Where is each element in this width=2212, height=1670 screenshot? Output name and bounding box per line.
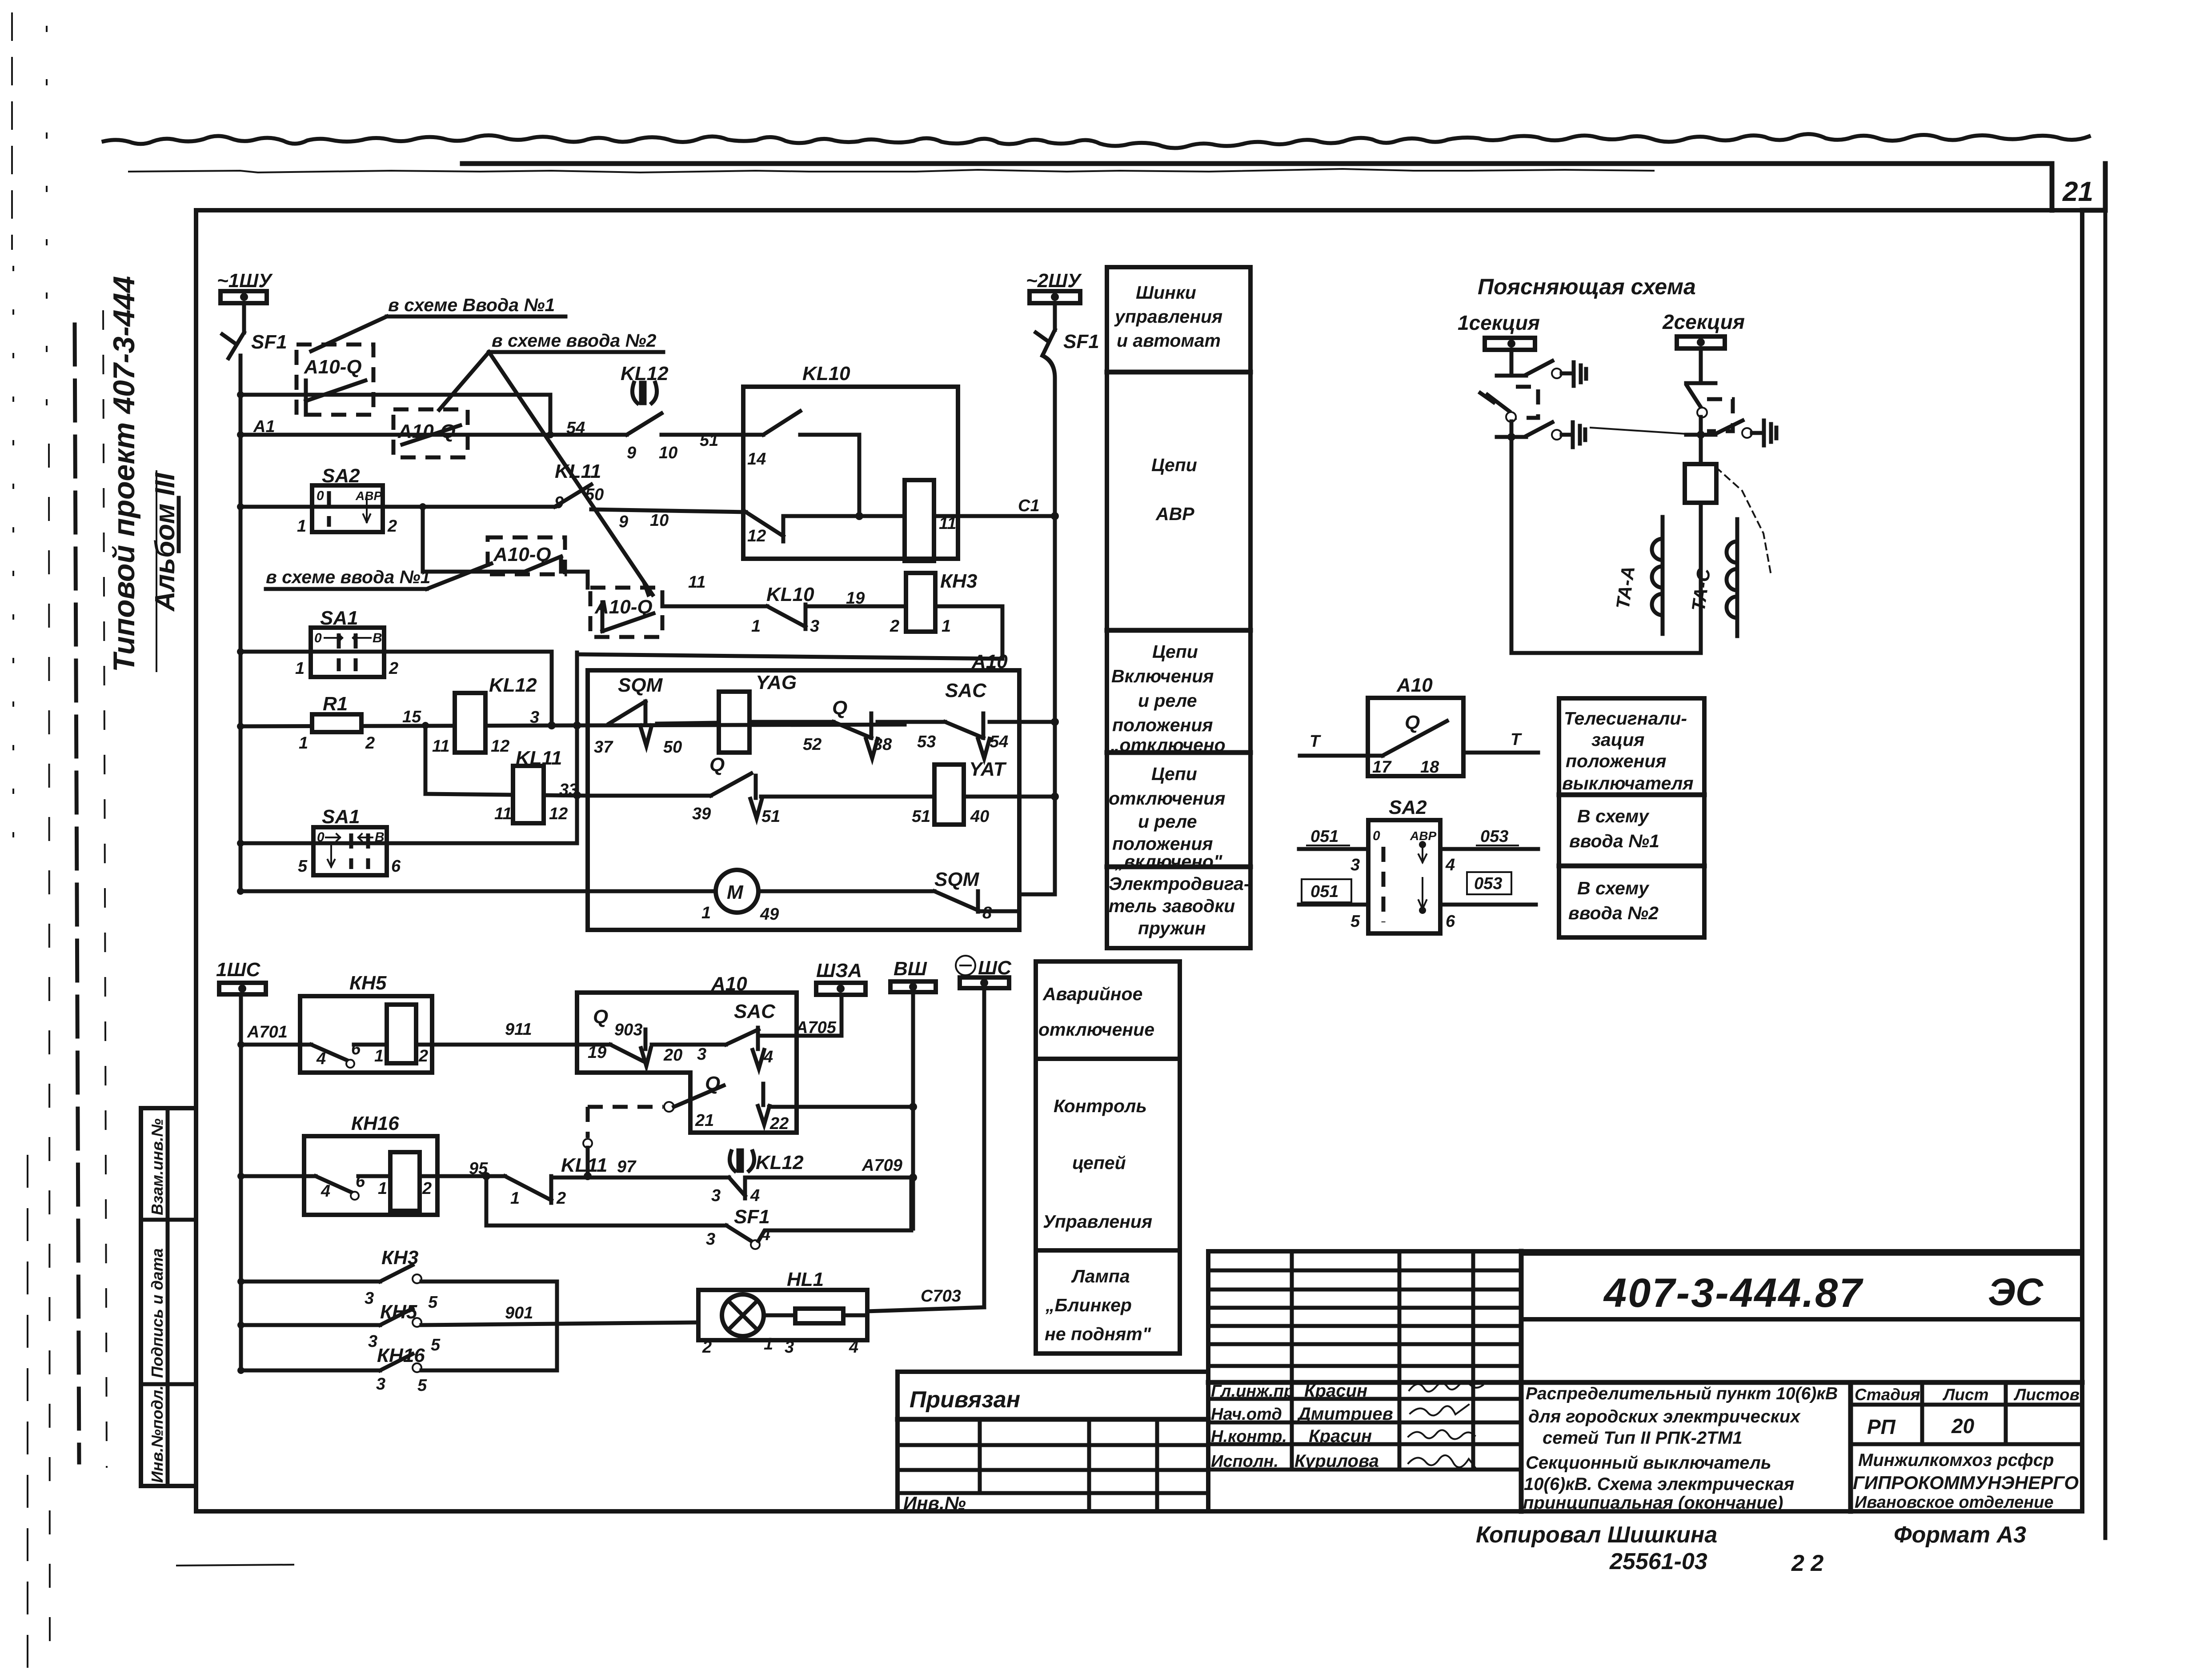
- svg-text:1: 1: [299, 734, 308, 753]
- svg-text:52: 52: [803, 735, 821, 754]
- svg-text:SF1: SF1: [1063, 331, 1099, 352]
- svg-text:A701: A701: [247, 1023, 288, 1041]
- wire: left vertical bus: [239, 356, 243, 891]
- svg-text:ввода №1: ввода №1: [1569, 831, 1659, 851]
- svg-text:YAT: YAT: [969, 758, 1007, 780]
- scan stray line: [177, 1565, 293, 1566]
- svg-text:51: 51: [700, 431, 718, 450]
- svg-text:Электродвига-: Электродвига-: [1109, 873, 1250, 894]
- svg-text:4: 4: [321, 1182, 330, 1201]
- svg-text:Q: Q: [1405, 712, 1420, 733]
- wire long link y1478: [577, 654, 1002, 659]
- svg-text:20: 20: [663, 1046, 682, 1065]
- svg-text:выключателя: выключателя: [1562, 773, 1694, 793]
- svg-text:КН16: КН16: [351, 1113, 399, 1134]
- wire box3 row: [423, 557, 588, 588]
- wire lower-left bus: [239, 994, 243, 1370]
- wire w2 bus A1: [240, 433, 627, 437]
- svg-text:Исполн.: Исполн.: [1211, 1452, 1278, 1471]
- svg-text:Контроль: Контроль: [1054, 1096, 1147, 1116]
- resistor R1: [299, 693, 375, 753]
- breaker SF1 (right): [1036, 330, 1099, 356]
- contact A10-Q (box 3): [488, 537, 565, 574]
- svg-text:3: 3: [785, 1338, 794, 1357]
- svg-text:051: 051: [1310, 882, 1338, 901]
- svg-text:38: 38: [873, 735, 892, 754]
- disconnector knife (sec2 right): [1715, 421, 1776, 445]
- svg-text:5: 5: [431, 1336, 441, 1354]
- wire w3 continues: [591, 509, 746, 512]
- svg-text:положения: положения: [1112, 715, 1213, 735]
- svg-text:10(6)кВ. Схема электрическая: 10(6)кВ. Схема электрическая: [1524, 1474, 1794, 1494]
- svg-text:Типовой проект 407-3-444: Типовой проект 407-3-444: [107, 276, 141, 672]
- svg-text:принципиальная (окончание): принципиальная (окончание): [1523, 1493, 1783, 1513]
- LOWERSECTION: [216, 956, 1012, 1395]
- net 911: [416, 1043, 610, 1047]
- svg-text:3: 3: [1350, 856, 1360, 874]
- svg-text:в схеме Ввода №1: в схеме Ввода №1: [388, 295, 555, 315]
- svg-text:12: 12: [747, 527, 766, 545]
- contact Q 19-20: [588, 1006, 682, 1066]
- svg-text:SQM: SQM: [934, 869, 980, 890]
- svg-text:положения: положения: [1566, 751, 1667, 771]
- svg-text:3: 3: [365, 1289, 374, 1308]
- top horizontal rule: [462, 161, 2052, 166]
- svg-text:2: 2: [418, 1047, 428, 1065]
- wire A701 row: [241, 1043, 311, 1047]
- svg-text:отключение: отключение: [1038, 1019, 1154, 1040]
- svg-text:сетей Тип II РПК-2ТМ1: сетей Тип II РПК-2ТМ1: [1543, 1428, 1743, 1448]
- wire right drop: [555, 1282, 559, 1370]
- svg-text:Инв.№подл.: Инв.№подл.: [148, 1386, 166, 1483]
- wire: drop SA1 row to R1 row: [550, 652, 554, 726]
- svg-text:9: 9: [619, 513, 628, 531]
- svg-text:22: 22: [769, 1114, 789, 1133]
- svg-text:0: 0: [317, 830, 325, 845]
- svg-text:39: 39: [692, 805, 711, 823]
- svg-text:В схему: В схему: [1577, 806, 1650, 826]
- svg-text:5: 5: [417, 1376, 427, 1395]
- wire KH16 row: [241, 1174, 316, 1178]
- contact KL10.14: [747, 411, 859, 516]
- svg-text:и автомат: и автомат: [1117, 330, 1221, 351]
- svg-text:Аварийное: Аварийное: [1042, 984, 1142, 1004]
- svg-text:1секция: 1секция: [1458, 311, 1540, 334]
- svg-text:54: 54: [990, 733, 1008, 751]
- svg-text:КН5: КН5: [380, 1301, 417, 1323]
- telemetry legend box: [1559, 698, 1704, 937]
- TITLEBLOCK: [898, 1251, 2082, 1576]
- svg-text:3: 3: [711, 1186, 721, 1205]
- svg-text:2: 2: [890, 617, 899, 636]
- svg-text:не поднят": не поднят": [1045, 1324, 1151, 1344]
- bus 1 секция: [1458, 311, 1540, 350]
- coil KL12: [432, 674, 537, 756]
- wire w3 (SA2 row): [240, 505, 555, 509]
- svg-text:C1: C1: [1018, 497, 1040, 515]
- net 95: [420, 1174, 505, 1178]
- svg-text:в схеме ввода №1: в схеме ввода №1: [266, 567, 430, 587]
- svg-text:1: 1: [297, 517, 306, 536]
- svg-text:KL12: KL12: [756, 1152, 804, 1173]
- lamp HL1: [698, 1269, 867, 1357]
- svg-text:Взам.инв.№: Взам.инв.№: [148, 1118, 166, 1215]
- disconnector knife (sec2 upper): [1687, 386, 1707, 417]
- svg-text:97: 97: [617, 1157, 637, 1176]
- bus ВШ: [890, 958, 936, 992]
- net 051 boxed: [1299, 879, 1368, 931]
- svg-text:0: 0: [314, 631, 322, 645]
- svg-text:51: 51: [912, 807, 930, 826]
- svg-text:53: 53: [917, 733, 936, 751]
- svg-text:Цепи: Цепи: [1152, 641, 1198, 662]
- svg-text:ВШ: ВШ: [894, 958, 927, 980]
- breaker SF1 (left): [222, 331, 287, 358]
- contact Q 39-51: [588, 754, 780, 826]
- wire vertical riser x1298: [575, 653, 579, 843]
- wire w6 (KL11 row): [425, 794, 588, 796]
- svg-text:3: 3: [706, 1230, 715, 1249]
- footer notes: [1476, 1522, 2026, 1576]
- dashed interlock box sec1: [1516, 387, 1538, 418]
- sheet no box "21": [2050, 164, 2055, 210]
- svg-text:В схему: В схему: [1577, 878, 1650, 898]
- contact KH3 3-5: [237, 1247, 557, 1312]
- svg-text:Шинки: Шинки: [1136, 282, 1196, 303]
- svg-text:SA2: SA2: [1389, 797, 1427, 818]
- svg-text:A10: A10: [1396, 674, 1433, 696]
- svg-text:SQM: SQM: [618, 674, 663, 696]
- svg-text:2: 2: [387, 517, 397, 536]
- svg-text:Лист: Лист: [1942, 1386, 1989, 1404]
- wire SAC to C1 bus: [990, 720, 1055, 724]
- dashed interlock box sec2: [1707, 399, 1733, 431]
- relay KH16 (coil + contact box): [304, 1113, 437, 1215]
- svg-text:„Блинкер: „Блинкер: [1045, 1295, 1132, 1315]
- disconnector knife (sec1 lower): [1526, 422, 1585, 447]
- svg-text:КН5: КН5: [349, 972, 387, 994]
- svg-text:051: 051: [1310, 827, 1338, 846]
- svg-text:T: T: [1310, 732, 1321, 751]
- svg-text:Формат А3: Формат А3: [1894, 1522, 2026, 1548]
- switch SA2 (repeat): [1368, 797, 1440, 933]
- net 053: [1440, 827, 1538, 874]
- svg-text:50: 50: [663, 738, 682, 757]
- bus 1ШС: [216, 959, 266, 994]
- svg-text:Инв.№: Инв.№: [903, 1493, 966, 1514]
- svg-text:4: 4: [1445, 856, 1455, 874]
- wire tie line: [1591, 428, 1699, 435]
- wire bottom return: [1511, 651, 1701, 655]
- svg-text:40: 40: [970, 807, 989, 826]
- RIGHTTABLES: [1036, 267, 1704, 1354]
- svg-text:2: 2: [702, 1338, 712, 1357]
- contact A10-Q (box 1): [297, 344, 373, 415]
- svg-text:для городских электрических: для городских электрических: [1528, 1407, 1801, 1426]
- svg-text:10: 10: [659, 444, 677, 462]
- contact KH5 3-5: [237, 1301, 698, 1354]
- svg-text:Гл.инж.пр: Гл.инж.пр: [1211, 1382, 1294, 1401]
- svg-text:1: 1: [510, 1189, 520, 1208]
- pointer dashed to TA-C: [1716, 468, 1771, 573]
- contact SQM 8: [758, 869, 1019, 922]
- svg-text:В: В: [373, 631, 382, 645]
- wire: drop w1 to A1: [549, 395, 553, 435]
- svg-text:1: 1: [374, 1047, 384, 1065]
- revision grid: [1208, 1269, 1521, 1273]
- svg-text:РП: РП: [1867, 1415, 1896, 1438]
- svg-text:053: 053: [1480, 827, 1508, 846]
- bus 2ШУ: [1026, 270, 1082, 330]
- leader: в схеме ввода №1 (left): [266, 564, 491, 589]
- wire dashed drop x1322: [583, 1107, 592, 1180]
- svg-text:1: 1: [751, 617, 761, 636]
- signature scribbles: [1409, 1382, 1483, 1392]
- net A705: [761, 1018, 842, 1037]
- breaker (section breaker box): [1685, 464, 1716, 503]
- svg-text:10: 10: [650, 511, 669, 530]
- svg-text:54: 54: [566, 419, 585, 437]
- wire w1: [240, 393, 550, 397]
- svg-text:SAC: SAC: [945, 680, 987, 701]
- LEFTMARGIN: [12, 13, 293, 1670]
- svg-text:ГИПРОКОММУНЭНЕРГО: ГИПРОКОММУНЭНЕРГО: [1853, 1472, 2079, 1493]
- svg-text:407-3-444.87: 407-3-444.87: [1603, 1270, 1863, 1316]
- svg-text:Управления: Управления: [1043, 1211, 1152, 1232]
- svg-text:SA1: SA1: [322, 806, 360, 828]
- svg-text:17: 17: [1372, 758, 1392, 777]
- svg-text:2секция: 2секция: [1662, 310, 1745, 333]
- svg-text:0: 0: [317, 489, 324, 503]
- svg-text:„включено": „включено": [1114, 851, 1222, 872]
- svg-text:HL1: HL1: [787, 1269, 824, 1290]
- wire w2 continues: [661, 433, 763, 437]
- svg-text:25561-03: 25561-03: [1609, 1549, 1707, 1574]
- contact KL11 1-2: [505, 1154, 607, 1208]
- svg-text:A705: A705: [795, 1018, 837, 1037]
- svg-text:~2ШУ: ~2ШУ: [1026, 270, 1082, 292]
- relay KH5 (coil + contact box): [300, 972, 432, 1073]
- bottom-left stamp column: [141, 1108, 196, 1486]
- svg-text:отключения: отключения: [1109, 788, 1225, 809]
- svg-text:9: 9: [627, 444, 636, 462]
- wire w7 (SA1 lower row): [240, 841, 577, 845]
- svg-text:Секционный выключатель: Секционный выключатель: [1526, 1453, 1771, 1473]
- svg-text:2: 2: [389, 659, 398, 678]
- svg-text:A10: A10: [711, 973, 747, 995]
- contact KL12 (latched, on A1 wire): [621, 363, 677, 462]
- svg-text:Цепи: Цепи: [1151, 764, 1197, 784]
- svg-text:12: 12: [549, 805, 568, 823]
- svg-text:1: 1: [942, 617, 951, 636]
- svg-text:Ивановское отделение: Ивановское отделение: [1855, 1493, 2054, 1512]
- svg-text:3: 3: [530, 708, 539, 727]
- disconnector knife (sec1 left): [1480, 393, 1516, 422]
- wire sec2 dropper: [1699, 348, 1703, 383]
- svg-text:19: 19: [846, 589, 865, 608]
- net C703: [867, 1307, 984, 1311]
- svg-text:Q: Q: [832, 697, 847, 719]
- svg-text:R1: R1: [323, 693, 348, 715]
- svg-text:„отключено: „отключено: [1110, 735, 1226, 755]
- svg-text:и реле: и реле: [1138, 690, 1197, 711]
- svg-text:12: 12: [491, 737, 509, 756]
- svg-text:ШЗА: ШЗА: [816, 960, 862, 981]
- svg-text:6: 6: [391, 857, 401, 876]
- wire sec2 vertical lower: [1699, 503, 1703, 653]
- contact Q 52-38: [749, 697, 892, 758]
- svg-text:Стадия: Стадия: [1855, 1386, 1920, 1404]
- svg-text:11: 11: [688, 573, 705, 592]
- leader: в схеме ввода №1 (top): [311, 295, 565, 351]
- wire sec2 node: [1699, 417, 1703, 464]
- bus ШС: [956, 956, 1012, 988]
- attachment table Привязан: [898, 1372, 1208, 1514]
- svg-text:911: 911: [505, 1020, 532, 1039]
- lower legend column: [1036, 961, 1180, 1354]
- wire sec1 dropper: [1510, 350, 1514, 376]
- function table column: [1107, 267, 1250, 948]
- svg-text:19: 19: [588, 1043, 606, 1062]
- contact A10-Q (box 4): [590, 588, 662, 637]
- svg-text:6: 6: [351, 1040, 361, 1058]
- coil YAT: [761, 758, 1007, 826]
- contact KL12 3-4 (latched): [711, 1150, 804, 1205]
- svg-text:3: 3: [810, 617, 819, 636]
- svg-text:21: 21: [695, 1111, 714, 1130]
- wire w5 (R1 row): [240, 725, 905, 726]
- svg-text:зация: зация: [1591, 729, 1644, 750]
- wire row continues: [551, 1176, 729, 1180]
- svg-text:11: 11: [432, 737, 449, 756]
- stage cells: [1848, 1382, 1853, 1511]
- svg-text:20: 20: [1951, 1414, 1975, 1438]
- svg-text:тель заводки: тель заводки: [1109, 896, 1235, 916]
- contact Q 21-22 (dashed pickup): [588, 1073, 917, 1133]
- wire ШС vertical: [982, 988, 986, 1307]
- wire C1 bus bottom link: [1019, 894, 1055, 911]
- TOPSECTION: [217, 270, 1099, 930]
- svg-text:2: 2: [365, 734, 375, 753]
- wire ВШ vertical: [911, 992, 915, 1229]
- svg-text:Подпись и дата: Подпись и дата: [148, 1248, 166, 1378]
- svg-text:Поясняющая схема: Поясняющая схема: [1478, 274, 1696, 299]
- svg-text:2: 2: [556, 1189, 566, 1208]
- contact KL10 1-3: [751, 584, 819, 636]
- svg-text:1: 1: [701, 904, 711, 922]
- svg-text:KL10: KL10: [802, 363, 850, 384]
- wire KH3 link down: [935, 606, 1002, 659]
- svg-text:903: 903: [614, 1021, 642, 1039]
- svg-text:управления: управления: [1114, 306, 1222, 327]
- coil KH3: [805, 570, 977, 636]
- svg-text:~1ШУ: ~1ШУ: [217, 270, 273, 292]
- svg-text:Лампа: Лампа: [1071, 1266, 1130, 1286]
- svg-text:цепей: цепей: [1072, 1153, 1126, 1173]
- svg-text:51: 51: [761, 807, 780, 826]
- svg-text:37: 37: [594, 738, 613, 757]
- svg-text:2: 2: [422, 1179, 432, 1198]
- coil KL10: [783, 480, 956, 561]
- contact SAC 3-4: [697, 1001, 776, 1069]
- svg-text:6: 6: [1446, 912, 1455, 931]
- svg-text:T: T: [1511, 730, 1522, 749]
- switch SA1 (lower): [298, 806, 401, 876]
- contact KL10.12: [746, 512, 783, 545]
- svg-text:Дмитриев: Дмитриев: [1297, 1404, 1393, 1424]
- title block main: [1208, 1251, 2082, 1513]
- CT TA-A: [1612, 517, 1663, 634]
- svg-text:053: 053: [1474, 874, 1502, 893]
- svg-text:SF1: SF1: [734, 1206, 770, 1228]
- svg-text:SF1: SF1: [251, 331, 287, 353]
- svg-text:KL12: KL12: [621, 363, 669, 384]
- svg-text:3: 3: [368, 1332, 377, 1351]
- svg-text:SAC: SAC: [734, 1001, 776, 1022]
- svg-text:5: 5: [428, 1293, 438, 1312]
- svg-text:11: 11: [494, 805, 512, 823]
- svg-text:Привязан: Привязан: [910, 1387, 1020, 1413]
- svg-text:KL12: KL12: [489, 674, 537, 696]
- svg-text:в схеме ввода №2: в схеме ввода №2: [492, 330, 657, 351]
- svg-text:49: 49: [760, 905, 779, 924]
- svg-text:ввода №2: ввода №2: [1568, 903, 1659, 923]
- svg-text:Минжилкомхоз рсфср: Минжилкомхоз рсфср: [1858, 1450, 2054, 1470]
- svg-text:4: 4: [316, 1049, 326, 1068]
- net A709: [745, 1176, 913, 1180]
- svg-text:АВР: АВР: [1410, 829, 1436, 843]
- coil KL11: [494, 747, 568, 823]
- svg-text:Телесигнали-: Телесигнали-: [1564, 708, 1687, 729]
- svg-text:901: 901: [505, 1304, 533, 1322]
- unit A10 (telemetry contact Q 17-18): [1368, 674, 1463, 777]
- wire T right: [1463, 730, 1538, 753]
- wavy torn top edge: [104, 134, 2089, 148]
- svg-text:Альбом III: Альбом III: [150, 472, 180, 612]
- svg-text:1: 1: [295, 659, 305, 678]
- wire: drop 15 to KL11 row: [424, 725, 428, 794]
- coil YAG: [657, 672, 797, 753]
- bus ШЗА: [816, 960, 866, 995]
- contact KL11 (on SA2 row): [555, 461, 669, 531]
- contact SQM 37-50: [594, 674, 682, 757]
- disconnector knife (sec1 upper): [1526, 361, 1586, 386]
- svg-text:и реле: и реле: [1138, 811, 1197, 832]
- svg-text:0: 0: [1373, 829, 1380, 843]
- wire C1 vertical bus: [1042, 356, 1055, 894]
- svg-text:YAG: YAG: [756, 672, 797, 693]
- svg-text:Распределительный пункт 10(6)к: Распределительный пункт 10(6)кВ: [1526, 1384, 1838, 1403]
- svg-text:C703: C703: [921, 1287, 961, 1306]
- wire YAT to C1 bus: [964, 795, 1055, 799]
- svg-text:1ШС: 1ШС: [216, 959, 261, 981]
- EXPLAIN: [1458, 274, 1776, 653]
- svg-text:A709: A709: [862, 1156, 902, 1175]
- svg-text:4: 4: [763, 1048, 773, 1066]
- svg-text:Красин: Красин: [1304, 1381, 1367, 1401]
- net 053 boxed: [1440, 872, 1536, 931]
- svg-text:Q: Q: [593, 1006, 608, 1028]
- wire A705 riser to ШЗА: [840, 995, 844, 1036]
- motor M: [701, 870, 779, 924]
- contact SAC 53-54: [878, 680, 1008, 758]
- wire w-kh3 row: [662, 605, 767, 609]
- svg-text:5: 5: [1350, 912, 1360, 931]
- svg-text:1: 1: [378, 1179, 387, 1198]
- svg-text:Красин: Красин: [1309, 1426, 1372, 1446]
- svg-text:ЭС: ЭС: [1988, 1271, 2044, 1314]
- net C1: [934, 514, 1055, 518]
